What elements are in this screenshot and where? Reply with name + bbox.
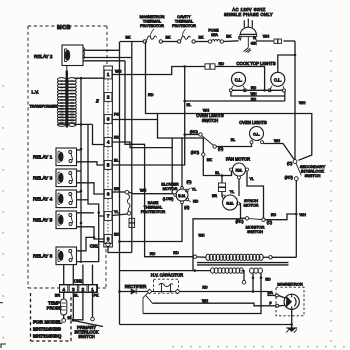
svg-text:2: 2 xyxy=(107,95,110,100)
svg-text:WH: WH xyxy=(115,69,122,73)
svg-text:MH7110XBB: MH7110XBB xyxy=(33,327,62,333)
monitor switch labels xyxy=(235,220,272,234)
wire RD bus xyxy=(146,42,312,161)
wire connector to lamp riser xyxy=(215,66,265,68)
TEMP PROBE label xyxy=(47,301,62,311)
svg-text:(NC): (NC) xyxy=(190,130,199,134)
BL label OL xyxy=(231,138,235,142)
svg-text:RD: RD xyxy=(148,93,154,97)
base thermal protector xyxy=(125,190,131,215)
primary interlock switch blade xyxy=(74,321,103,327)
wire FM bottom to synch motor xyxy=(238,179,240,196)
wire loop to filament right xyxy=(143,278,261,314)
chassis bottom wire xyxy=(120,324,292,326)
temp probe component xyxy=(61,293,67,323)
svg-text:BR: BR xyxy=(55,293,61,297)
wire relay3 bottom to CN1-6 xyxy=(77,183,104,194)
wire relay5 bottom to CN1-8 xyxy=(77,227,104,239)
svg-text:RELAY 3: RELAY 3 xyxy=(33,176,53,182)
model option dashed box xyxy=(31,293,72,341)
blower motor BM xyxy=(176,189,188,201)
fuse 15A xyxy=(208,39,223,43)
wire riser x172 to blower WH node xyxy=(171,138,173,194)
BLOWER MOTOR label xyxy=(161,181,178,190)
wire capacitor to FA xyxy=(179,290,275,295)
svg-text:7: 7 xyxy=(107,214,110,219)
FA terminal xyxy=(275,294,278,297)
F terminal xyxy=(276,304,279,307)
svg-text:BK: BK xyxy=(198,36,204,40)
H.V. CAPACITOR label xyxy=(151,273,183,278)
wire x98.7 to CN1-7 xyxy=(99,213,104,217)
secondary interlock labels xyxy=(285,162,326,180)
MCB control board dashed outline xyxy=(28,26,107,288)
HV transformer primary coil xyxy=(197,254,269,260)
svg-text:FA: FA xyxy=(269,291,274,295)
svg-text:BR: BR xyxy=(212,194,217,198)
BL label cap xyxy=(215,171,219,175)
svg-text:RD: RD xyxy=(251,86,257,90)
phase mark z xyxy=(95,99,99,105)
wire capacitor to synch motor xyxy=(221,192,223,197)
wire relay coils to CN2-2 xyxy=(82,265,84,285)
svg-text:PROTECTOR: PROTECTOR xyxy=(140,24,164,28)
wire BM return to left bus xyxy=(120,204,183,242)
AC plug xyxy=(240,19,257,48)
FOR MODEL caption xyxy=(33,320,62,340)
wire relay4 bottom contact xyxy=(77,199,89,201)
PRIMARY INTERLOCK SWITCH label xyxy=(75,325,99,339)
svg-text:YL: YL xyxy=(250,177,254,181)
svg-text:CAVITY: CAVITY xyxy=(177,15,191,19)
chassis top wire to HV secondary xyxy=(120,269,211,272)
BK label 1 xyxy=(125,36,131,40)
WH label at plug xyxy=(263,35,270,39)
capacitor terminal diamonds xyxy=(147,289,180,294)
fan motor FM xyxy=(233,163,246,176)
wire monitor C to WH bus xyxy=(265,214,296,220)
synch motor terminals xyxy=(222,195,239,205)
wire plug N to connector xyxy=(256,40,273,42)
relay RELAY 3 label xyxy=(33,176,53,182)
svg-text:(NC): (NC) xyxy=(235,220,244,224)
svg-text:z: z xyxy=(95,99,99,105)
wire CN1-3 PK xyxy=(112,119,157,121)
svg-text:BL: BL xyxy=(215,171,219,175)
RD label CN1-4 xyxy=(114,136,120,140)
left bus vertical xyxy=(118,42,121,325)
MAGNETRON label xyxy=(277,282,302,287)
svg-text:TRANSFORMER: TRANSFORMER xyxy=(30,105,58,109)
svg-text:MOTOR: MOTOR xyxy=(163,186,178,191)
svg-text:RELAY 5: RELAY 5 xyxy=(33,218,53,224)
svg-text:BK: BK xyxy=(226,34,232,38)
WH label chassis riser xyxy=(199,234,205,238)
svg-text:1: 1 xyxy=(91,287,94,292)
wire CN1-8 BK xyxy=(108,246,132,252)
wire relay1 bottom contact xyxy=(77,162,104,165)
COOK TOP LIGHTS label xyxy=(236,61,275,66)
svg-text:WH: WH xyxy=(300,213,307,217)
svg-text:RD: RD xyxy=(251,97,257,101)
AC rating label xyxy=(224,7,273,17)
svg-text:PROTECTOR: PROTECTOR xyxy=(141,209,166,214)
relay RELAY 4 body xyxy=(56,190,77,208)
WH label mid line xyxy=(203,108,210,112)
mains wire (BK) xyxy=(120,41,144,43)
cook light wire labels xyxy=(251,86,257,101)
svg-text:(C): (C) xyxy=(287,162,293,166)
cook top lamp CL right xyxy=(271,72,285,86)
svg-text:RELAY 1: RELAY 1 xyxy=(33,155,53,161)
YL label CN1-7 xyxy=(114,210,119,214)
svg-text:8: 8 xyxy=(107,237,110,242)
wire BL branch to oven switch NC xyxy=(183,133,198,136)
relay RELAY 6 body xyxy=(56,247,77,265)
connector CN2 strip xyxy=(60,285,98,293)
svg-text:BK: BK xyxy=(207,158,213,162)
svg-text:YL: YL xyxy=(192,187,196,191)
wire CN2-1 to interlock contact xyxy=(91,293,95,321)
svg-text:C.L.: C.L. xyxy=(235,77,243,82)
wire relay2 top contact to mains xyxy=(83,49,120,51)
svg-text:5: 5 xyxy=(107,163,110,168)
plug ground hatch xyxy=(244,48,252,53)
svg-text:WH: WH xyxy=(202,299,208,303)
wire secondary bottom riser to CN1-4 xyxy=(93,124,104,144)
WH label lower bus xyxy=(300,213,307,217)
svg-text:RD: RD xyxy=(271,213,277,217)
inline connector on riser xyxy=(129,218,135,227)
WH bus down right side xyxy=(294,41,297,160)
svg-text:SINGLE PHASE ONLY: SINGLE PHASE ONLY xyxy=(224,12,273,17)
relay RELAY 6 label xyxy=(33,254,53,260)
BK label CN1-8 xyxy=(114,232,120,236)
svg-text:SWITCH: SWITCH xyxy=(78,334,95,339)
L.V. transformer T1 xyxy=(57,66,76,128)
ground symbol xyxy=(286,328,297,333)
blower motor tap labels xyxy=(163,180,199,209)
svg-text:WH: WH xyxy=(274,139,280,143)
magnetron thermal protector switch xyxy=(143,36,162,43)
wire monitor NC to chassis xyxy=(193,219,241,271)
relay common bus vertical xyxy=(80,78,83,263)
svg-text:PK: PK xyxy=(93,293,99,297)
svg-text:MAGNETRON: MAGNETRON xyxy=(140,15,165,19)
wire OL right to interlock C xyxy=(264,144,295,160)
HV capacitor dashed box xyxy=(154,279,179,293)
wire lamp row WH xyxy=(231,92,285,96)
svg-text:WH: WH xyxy=(140,189,147,193)
magnetron tube xyxy=(284,294,299,309)
svg-text:RD: RD xyxy=(219,62,225,66)
svg-text:BL: BL xyxy=(114,159,119,163)
wire relay3 top to bus xyxy=(77,170,82,172)
relay RELAY 1 label xyxy=(33,155,53,161)
wire relay6 bottom contact xyxy=(77,242,99,262)
BASE THERMAL PROTECTOR label xyxy=(141,200,166,214)
wire CN2-2 joins common xyxy=(75,293,83,320)
cavity thermal protector switch xyxy=(177,36,195,43)
fan motor terminals xyxy=(230,168,249,179)
inline connector near plug xyxy=(274,39,281,43)
wire secondary riser x88 xyxy=(88,124,104,241)
RD label HV feed xyxy=(150,251,179,256)
svg-text:BL: BL xyxy=(68,316,73,320)
svg-text:(C): (C) xyxy=(267,221,273,225)
F label xyxy=(269,302,271,306)
wire primary right to WH bus xyxy=(272,256,296,258)
WH label CN1-1 xyxy=(115,69,122,73)
svg-text:RD: RD xyxy=(265,278,271,282)
RD label connector xyxy=(219,62,225,66)
wire transformer secondary top to CN1-1 xyxy=(74,77,104,80)
MCB label xyxy=(57,25,71,31)
svg-text:PK: PK xyxy=(114,112,120,116)
wire CN1-4 RD xyxy=(112,142,172,148)
svg-text:YL: YL xyxy=(114,210,119,214)
wire F into magnetron xyxy=(279,304,286,306)
svg-text:S.M.: S.M. xyxy=(226,201,234,205)
FA label xyxy=(269,291,274,295)
HV capacitor element xyxy=(150,283,178,292)
svg-text:(C): (C) xyxy=(218,147,224,151)
wire protector bottom to CN1-7 xyxy=(112,214,127,216)
svg-text:THERMAL: THERMAL xyxy=(143,19,161,23)
wire lamp row RD xyxy=(232,89,283,92)
YL label FM bottom xyxy=(230,190,234,194)
svg-text:COOK TOP LIGHTS: COOK TOP LIGHTS xyxy=(236,61,275,66)
svg-text:WH: WH xyxy=(299,101,306,105)
wire lamp row RD2 xyxy=(185,100,285,102)
wire riser from RD connector xyxy=(264,67,266,90)
svg-text:15A: 15A xyxy=(211,33,218,37)
wire fuse to plug xyxy=(224,40,239,43)
wire relay coils to CN2-1 xyxy=(92,265,94,285)
svg-text:BL: BL xyxy=(187,103,192,107)
SYNCH MOTOR label xyxy=(244,198,259,208)
svg-text:WH: WH xyxy=(263,35,270,39)
wire oven switch NO (BK) xyxy=(203,156,231,177)
wire xyxy=(163,41,178,43)
rectifier wire and diode xyxy=(120,289,148,294)
svg-text:MCB: MCB xyxy=(57,25,71,31)
svg-text:6: 6 xyxy=(107,192,110,197)
RECTIFIER label xyxy=(125,284,147,289)
relay RELAY 3 body xyxy=(56,169,77,187)
svg-text:CN2: CN2 xyxy=(74,279,83,284)
RD label filament xyxy=(265,278,271,282)
svg-text:MOTOR: MOTOR xyxy=(244,203,259,208)
wire xyxy=(195,41,208,43)
oven lights switch xyxy=(199,133,217,156)
wire relay1 top to bus xyxy=(77,149,82,151)
cook top lamp CL left xyxy=(232,72,246,86)
svg-text:RELAY 2: RELAY 2 xyxy=(34,54,53,59)
HV transformer secondary coil xyxy=(211,268,244,273)
svg-text:(NO): (NO) xyxy=(285,176,294,180)
BK label 3 xyxy=(198,36,204,40)
OVEN LIGHT label xyxy=(239,120,267,125)
svg-text:RD: RD xyxy=(193,200,199,204)
svg-text:C.L.: C.L. xyxy=(274,77,282,82)
BK label 2 xyxy=(165,36,171,40)
WH label F wire xyxy=(202,299,208,303)
svg-text:MAGNETRON: MAGNETRON xyxy=(277,282,302,287)
svg-text:B.M.: B.M. xyxy=(178,194,185,198)
magnetron ground stem xyxy=(290,309,293,328)
svg-text:L: L xyxy=(238,36,240,40)
svg-text:BK: BK xyxy=(114,232,120,236)
svg-text:(H): (H) xyxy=(184,206,189,210)
connector CN1 strip xyxy=(104,66,113,247)
wire WH bus below interlock xyxy=(295,181,298,258)
svg-text:BL: BL xyxy=(74,293,79,297)
svg-text:(C): (C) xyxy=(187,180,192,184)
lamp terminals xyxy=(229,86,285,92)
wire right lamp riser xyxy=(284,92,286,101)
svg-text:RD: RD xyxy=(202,286,208,290)
MAGNETRON THERMAL PROTECTOR label xyxy=(140,15,165,37)
svg-text:PROBE: PROBE xyxy=(47,305,62,310)
svg-text:RECTIFIER: RECTIFIER xyxy=(125,284,147,289)
svg-text:SWITCH: SWITCH xyxy=(202,118,218,123)
wire relay4 top to bus xyxy=(77,191,82,193)
svg-text:L.V.: L.V. xyxy=(32,90,39,95)
svg-text:BL: BL xyxy=(231,138,235,142)
svg-text:3: 3 xyxy=(72,287,75,292)
wire x125 feed to HV primary xyxy=(125,61,193,257)
svg-text:3: 3 xyxy=(107,117,110,122)
BR label CN1-6 xyxy=(114,187,120,191)
svg-text:RD: RD xyxy=(173,251,179,255)
WH label right bus xyxy=(299,101,306,105)
svg-text:4: 4 xyxy=(62,287,65,292)
svg-text:RELAY 6: RELAY 6 xyxy=(33,254,53,260)
wire secondary right terminal xyxy=(241,271,246,284)
wire transformer secondary bottom xyxy=(74,123,93,126)
relay RELAY 4 label xyxy=(33,197,53,203)
relay RELAY 1 body xyxy=(56,148,77,166)
wire SM to monitor NC xyxy=(240,204,246,219)
svg-text:WH: WH xyxy=(203,108,210,112)
CN2 label xyxy=(74,279,83,284)
svg-text:BK: BK xyxy=(165,36,171,40)
relay RELAY2 body xyxy=(62,45,85,66)
svg-text:SWITCH: SWITCH xyxy=(305,173,321,178)
wire relay coils to CN2-4 xyxy=(63,265,65,285)
synch motor SM xyxy=(223,195,238,210)
FUSE 15A label xyxy=(208,29,219,37)
svg-text:(NO): (NO) xyxy=(191,150,200,154)
monitor switch xyxy=(245,217,265,222)
svg-text:RD: RD xyxy=(150,252,156,256)
svg-text:THERMAL: THERMAL xyxy=(175,19,193,23)
BL labels xyxy=(114,103,191,163)
CAVITY THERMAL PROTECTOR label xyxy=(172,15,196,37)
PK label xyxy=(114,112,120,116)
relay RELAY 5 label xyxy=(33,218,53,224)
fan capacitor xyxy=(218,183,225,192)
wire FA into magnetron xyxy=(278,296,285,299)
svg-text:GN: GN xyxy=(251,41,257,45)
staircase feed to oven switch NO xyxy=(158,114,204,153)
wire FM left to capacitor xyxy=(221,176,223,184)
CN2 pin colour labels xyxy=(55,293,99,297)
wire CN1-6 BR to protector xyxy=(112,191,125,193)
wire OL left to switch C xyxy=(217,144,252,147)
mains riser x131.8 xyxy=(131,42,133,253)
capacitor left node links xyxy=(143,293,153,314)
GN label xyxy=(251,41,257,45)
BK label 4 xyxy=(226,34,232,38)
page corner mark xyxy=(0,302,6,348)
svg-text:1: 1 xyxy=(107,72,110,77)
HV transformer primary terminals xyxy=(193,255,272,259)
svg-text:F.M.: F.M. xyxy=(236,168,243,172)
svg-text:CN1: CN1 xyxy=(90,244,99,249)
wire connector to WH bus xyxy=(283,40,295,42)
inline connector RD xyxy=(205,64,215,69)
svg-text:4: 4 xyxy=(107,140,110,145)
secondary interlock switch xyxy=(293,160,301,181)
svg-text:WH: WH xyxy=(251,92,257,96)
BL label at probe xyxy=(68,316,73,320)
svg-text:SWITCH: SWITCH xyxy=(247,229,263,234)
svg-text:N: N xyxy=(253,36,256,40)
svg-text:2: 2 xyxy=(82,287,85,292)
L.V. transformer labels xyxy=(30,90,58,109)
svg-text:H.V. CAPACITOR: H.V. CAPACITOR xyxy=(151,273,183,278)
svg-text:OVEN LIGHTS: OVEN LIGHTS xyxy=(239,120,267,125)
L N pin labels xyxy=(238,36,256,40)
wire relay5 top to CN1-7 node xyxy=(77,212,95,214)
wire BL bus xyxy=(112,65,186,165)
svg-text:FOR MODEL: FOR MODEL xyxy=(33,320,62,326)
wire relay coils to CN2-3 xyxy=(72,265,74,285)
HV transformer filament coil xyxy=(250,268,263,273)
wire CN1-1 WH xyxy=(112,67,204,75)
wire relay2 lower contact xyxy=(83,60,125,62)
OVEN LIGHTS SWITCH label xyxy=(196,113,224,123)
wire blower bus riser xyxy=(181,138,183,187)
wire protector to BM low (WH) xyxy=(128,192,173,194)
CN1 label xyxy=(90,244,99,249)
wire branch to right cook lamp xyxy=(278,55,295,72)
svg-text:PROTECTOR: PROTECTOR xyxy=(172,24,196,28)
magnetron dashed box xyxy=(276,287,304,316)
svg-text:RELAY 4: RELAY 4 xyxy=(33,197,53,203)
RD label bus xyxy=(148,93,154,97)
wire CN2-3 to interlock common xyxy=(72,293,75,322)
svg-text:FAN MOTOR: FAN MOTOR xyxy=(226,157,250,162)
oven light OL xyxy=(250,127,264,141)
svg-text:BR: BR xyxy=(114,187,120,191)
BR label SM xyxy=(212,194,217,198)
filament winding stubs xyxy=(252,273,263,279)
HV transformer core xyxy=(197,263,289,265)
svg-text:O.L.: O.L. xyxy=(253,132,260,136)
wire filament left stub down xyxy=(252,278,254,292)
blower motor terminals xyxy=(174,186,191,203)
oven switch labels xyxy=(190,130,224,154)
YL label FM xyxy=(250,177,254,181)
BK label NO wire xyxy=(207,158,213,162)
relay RELAY 5 body xyxy=(56,211,77,229)
wire WH to F xyxy=(153,303,276,306)
FAN MOTOR label xyxy=(226,157,250,162)
WH label protector xyxy=(140,189,147,193)
